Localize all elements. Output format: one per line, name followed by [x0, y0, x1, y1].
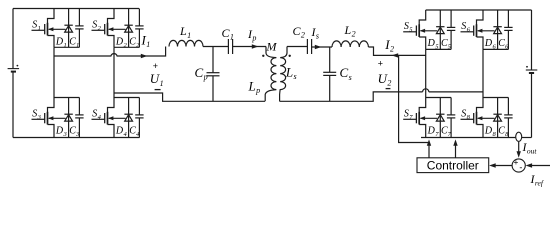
wire right rail upper [531, 10, 533, 70]
svg-text:+: + [153, 61, 158, 71]
transformer primary coil Lp [265, 47, 276, 102]
wire right bottom rail end [522, 137, 532, 139]
transistor S4 [92, 98, 126, 138]
svg-text:+: + [514, 158, 519, 167]
wire cell S6 bottom [483, 48, 508, 50]
current sensor (Iout) [516, 132, 522, 141]
wire phase B riser (S2-S4) [113, 47, 115, 97]
battery V1 (left DC source) [8, 65, 20, 72]
wire U1+ output (hop over riser) [54, 47, 166, 57]
wire C2 to L2 [312, 46, 332, 48]
arrow gate drive 2 up [453, 139, 457, 145]
arrow gate drive 1 up [427, 139, 431, 145]
wire phase riser (S6-S8) [482, 49, 484, 97]
wire right top rail [426, 9, 532, 11]
wire cell S8 top [483, 97, 508, 99]
wire phase A riser (S1-S3) [53, 47, 55, 97]
diode D4 [124, 98, 132, 138]
capacitor C1 (series) [228, 39, 232, 54]
wire cell S1 bottom [54, 46, 79, 48]
wire right rail lower [531, 73, 533, 138]
transistor S7 [403, 98, 437, 138]
label U1 minus [155, 89, 161, 91]
wire U2+ output [368, 47, 425, 55]
diode D5 [436, 10, 444, 49]
wire cell S7 top [426, 97, 451, 99]
wire cell S4 top [114, 97, 139, 99]
battery V2 (right DC source) [526, 66, 538, 73]
transistor S5 [403, 10, 437, 49]
polarity dot secondary [289, 55, 291, 57]
inductor L2 [332, 41, 368, 47]
wire C1 to Lp [233, 46, 266, 48]
capacitor C8 [504, 98, 512, 138]
capacitor Cp (parallel) [207, 47, 220, 102]
arrow I1 [141, 54, 148, 58]
svg-text:-: - [519, 162, 522, 172]
wire gate drive 2 [455, 145, 457, 158]
summing junction [512, 159, 525, 172]
diode D1 [64, 9, 72, 48]
wire left top rail [13, 8, 139, 10]
diode D8 [493, 98, 501, 138]
wire U2- return [280, 92, 484, 101]
capacitor C1 [75, 9, 83, 48]
capacitor C5 [447, 10, 455, 49]
wire U1- return [114, 93, 265, 101]
capacitor C6 [504, 10, 512, 49]
diode D2 [124, 9, 132, 48]
capacitor Cs (parallel) [323, 47, 336, 101]
transistor S2 [92, 9, 126, 48]
wire U2+ sense to controller [399, 55, 429, 142]
svg-text:+: + [378, 59, 383, 69]
capacitor C7 [447, 98, 455, 138]
inductor L1 [169, 40, 203, 46]
wire right bottom rail [421, 137, 515, 139]
wire left rail lower [12, 72, 14, 138]
wire left rail upper [12, 9, 14, 69]
transistor S1 [32, 9, 66, 48]
capacitor C2 (series) [307, 39, 311, 54]
wire left bottom rail [13, 137, 140, 139]
svg-text:M: M [266, 40, 278, 54]
arrow Iref into summer [526, 163, 533, 167]
transformer secondary coil Ls [280, 47, 287, 102]
diode D3 [64, 98, 72, 138]
wire hop over S5-S7 riser [423, 89, 429, 92]
wire sensor to summer [518, 142, 520, 152]
wire L1 to C1 [203, 46, 228, 48]
diode D6 [493, 10, 501, 49]
wire phase riser (S5-S7) [425, 49, 427, 97]
wire cell S3 top [54, 97, 79, 99]
polarity dot primary [262, 55, 264, 57]
label U2 minus [386, 88, 391, 90]
wire cell S2 bottom [114, 46, 139, 48]
arrow I2 [392, 53, 399, 57]
capacitor C3 [75, 98, 83, 138]
wire Iref input [532, 165, 550, 167]
controller box [417, 158, 489, 173]
wire gate drive 1 [428, 145, 430, 158]
svg-text:Controller: Controller [427, 158, 479, 172]
arrow into controller [489, 163, 496, 167]
arrow Is [315, 45, 322, 49]
transistor S8 [461, 98, 495, 138]
transistor S3 [32, 98, 66, 138]
transistor S6 [461, 10, 495, 49]
wire Ls to C2 [287, 46, 307, 48]
capacitor C2 [135, 9, 143, 48]
wire cell S5 bottom [426, 48, 451, 50]
arrow Iout down [517, 151, 521, 158]
wire summer to controller [495, 165, 512, 167]
capacitor C4 [135, 98, 143, 138]
arrow Ip [252, 44, 259, 48]
diode D7 [436, 98, 444, 138]
